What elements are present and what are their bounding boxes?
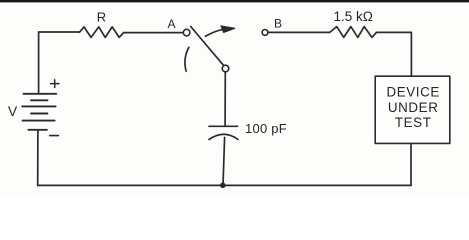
switch motion arc (185, 47, 189, 71)
wire from device under test box bottom to rail (410, 143, 412, 185)
svg-text:B: B (274, 17, 282, 31)
node B terminal circle (262, 30, 268, 36)
svg-text:TEST: TEST (395, 115, 432, 130)
battery V plate 5 long (23, 120, 55, 122)
wire battery negative down to bottom rail (37, 130, 39, 186)
svg-text:DEVICE: DEVICE (386, 85, 439, 100)
battery V plate 3 long (22, 105, 55, 107)
bottom rail wire (38, 184, 411, 186)
battery V plate 1 long positive (24, 93, 57, 95)
svg-text:UNDER: UNDER (388, 100, 439, 115)
resistor R zigzag (80, 27, 124, 38)
wire from capacitor C1 to bottom rail junction (223, 137, 225, 185)
capacitor C1 top plate (209, 125, 238, 127)
resistor 1.5 kOhm zigzag (330, 27, 377, 38)
device under test box (375, 76, 450, 143)
wire from resistor 1.5k to device under test box top (376, 32, 411, 76)
junction dot on bottom rail (220, 183, 226, 189)
wire top-left from battery positive up and right to resistor R (39, 32, 80, 93)
scan edge dark line across top (0, 0, 469, 2)
wire from node B to resistor 1.5k (268, 31, 330, 33)
svg-text:1.5 kΩ: 1.5 kΩ (334, 9, 373, 24)
node A terminal circle (183, 29, 190, 36)
switch blade from node A to pivot (191, 27, 227, 69)
battery V plate 4 short (31, 113, 47, 115)
battery V plate 6 bottom negative (28, 129, 47, 131)
svg-text:R: R (97, 9, 106, 24)
battery V plate 2 short (31, 99, 48, 101)
switch pivot terminal circle (222, 65, 229, 72)
switch throw arrow shaft (205, 29, 223, 36)
switch throw arrowhead (221, 26, 235, 32)
wire from switch pivot down to capacitor C1 (224, 72, 226, 126)
svg-text:A: A (167, 17, 175, 31)
capacitor C1 curved bottom plate (209, 134, 238, 139)
plus sign of battery (51, 80, 60, 88)
svg-text:V: V (8, 103, 18, 119)
svg-text:100 pF: 100 pF (245, 121, 287, 136)
minus sign of battery (50, 135, 59, 137)
wire from resistor R to node A (124, 32, 184, 34)
